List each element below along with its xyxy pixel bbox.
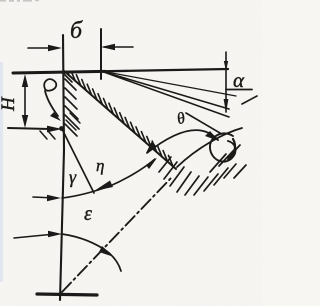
wire: top face horizontal line bbox=[13, 69, 228, 73]
heel line under theta bbox=[186, 113, 220, 133]
wire: vertical centerline / front face bbox=[60, 35, 64, 300]
ink blob at V junction bbox=[59, 126, 64, 131]
edge E1: hatched face from top vertex down-right bbox=[64, 71, 176, 169]
curl outer curve of tool heel bbox=[177, 128, 242, 167]
top edge print remnants bbox=[0, 0, 39, 2]
alpha label shelf bbox=[226, 89, 252, 91]
line F1 back face from edge point bbox=[101, 71, 229, 109]
gamma arrow from left bbox=[33, 197, 55, 198]
wire: lower horizontal line of H with arrow to vertex bbox=[8, 128, 50, 129]
alpha dimension vertical line with arrows bbox=[225, 52, 227, 112]
dimension b: left arrow line bbox=[28, 47, 58, 49]
tick beyond alpha vertex bbox=[242, 96, 257, 104]
dash-dot axis line bbox=[62, 178, 171, 292]
epsilon arc crossing axis bbox=[62, 234, 121, 271]
left page edge shading bbox=[0, 62, 3, 282]
line F2 upper fan line from edge point bbox=[101, 71, 236, 96]
dimension H: vertical dimension line with arrows bbox=[24, 79, 26, 124]
right hatch field along tool axis bbox=[159, 145, 246, 195]
epsilon arrow from left bbox=[14, 234, 55, 238]
wire: extension line for b dimension (right) bbox=[100, 29, 102, 79]
curved leader hook inside H box bbox=[44, 79, 56, 91]
hatch ticks near lower vertex bbox=[40, 113, 80, 139]
hatching right of front face bbox=[64, 74, 79, 136]
curl right side emphasis bbox=[228, 139, 235, 160]
theta arc with arrows bbox=[147, 130, 218, 153]
gamma-eta measurement arc to E1 with arrows bbox=[62, 159, 155, 198]
bottom tick bar bbox=[37, 294, 97, 295]
hatching along E1 upper side bbox=[67, 72, 174, 167]
line F3 lower fan line bbox=[101, 71, 229, 117]
gamma line from lower vertex bbox=[62, 129, 94, 193]
curl inner loop bbox=[210, 133, 236, 161]
dimension b: right arrow line bbox=[104, 46, 133, 48]
